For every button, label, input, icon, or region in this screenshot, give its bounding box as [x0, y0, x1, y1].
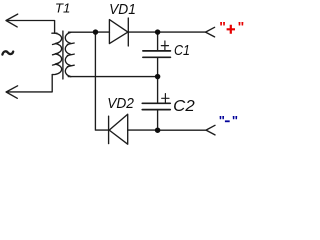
capacitor C1 bottom plate — [143, 56, 171, 58]
svg-text:VD2: VD2 — [107, 95, 134, 112]
transformer T1 core — [62, 31, 64, 79]
wire: node A to VD1 anode — [96, 31, 110, 33]
diode VD1 triangle (anode) — [109, 20, 128, 44]
AC source symbol ~ — [2, 51, 13, 54]
wire: AC input bottom lead — [6, 75, 52, 92]
wire: node B to plus output terminal — [158, 31, 206, 33]
svg-text:VD1: VD1 — [109, 1, 136, 18]
svg-text:C1: C1 — [174, 42, 190, 59]
wire: secondary top to node A — [69, 31, 96, 33]
output terminal chevron (minus) — [206, 125, 215, 135]
capacitor C2 top plate — [142, 102, 170, 104]
capacitor C2 bottom plate — [142, 109, 170, 111]
output terminal chevron (plus) — [206, 27, 215, 37]
capacitor C1 polarity plus — [161, 41, 168, 50]
transformer T1 secondary winding — [65, 32, 74, 76]
junction node C — [155, 74, 161, 80]
svg-text:T1: T1 — [55, 1, 71, 16]
wire: node D to minus output terminal — [158, 129, 206, 131]
svg-text:": " — [219, 113, 225, 128]
junction node A — [93, 29, 99, 35]
wire: VD1 cathode to node B — [128, 31, 157, 33]
wire: node B down to C1 — [157, 32, 159, 51]
wire: C1 to node C — [157, 57, 159, 76]
junction node B — [155, 29, 161, 35]
svg-text:": " — [238, 19, 244, 35]
wire: mid rail node C to secondary bottom — [68, 76, 157, 78]
capacitor C2 polarity plus — [162, 94, 169, 103]
wire: AC input top lead — [6, 21, 54, 34]
label plus output (red plus stroke) — [227, 25, 235, 34]
svg-text:C2: C2 — [173, 98, 195, 115]
transformer T1 primary winding — [52, 33, 62, 74]
wire: VD2 anode to node D — [128, 129, 158, 131]
diode VD2 cathode bar — [108, 116, 110, 143]
label minus output (navy dash stroke) — [225, 120, 230, 122]
capacitor C1 top plate — [143, 50, 171, 52]
svg-text:": " — [219, 19, 226, 35]
arrowhead: top AC input terminal — [6, 14, 18, 27]
svg-text:": " — [232, 113, 238, 128]
diode VD1 cathode bar — [127, 18, 129, 46]
wire: C2 to node D — [157, 110, 159, 131]
diode VD2 triangle (anode) — [109, 114, 128, 144]
wire: node C down to C2 — [157, 77, 159, 103]
junction node D — [155, 127, 161, 133]
wire: node A down to VD2 cathode lead — [95, 32, 108, 130]
arrowhead: bottom AC input terminal — [6, 86, 18, 99]
